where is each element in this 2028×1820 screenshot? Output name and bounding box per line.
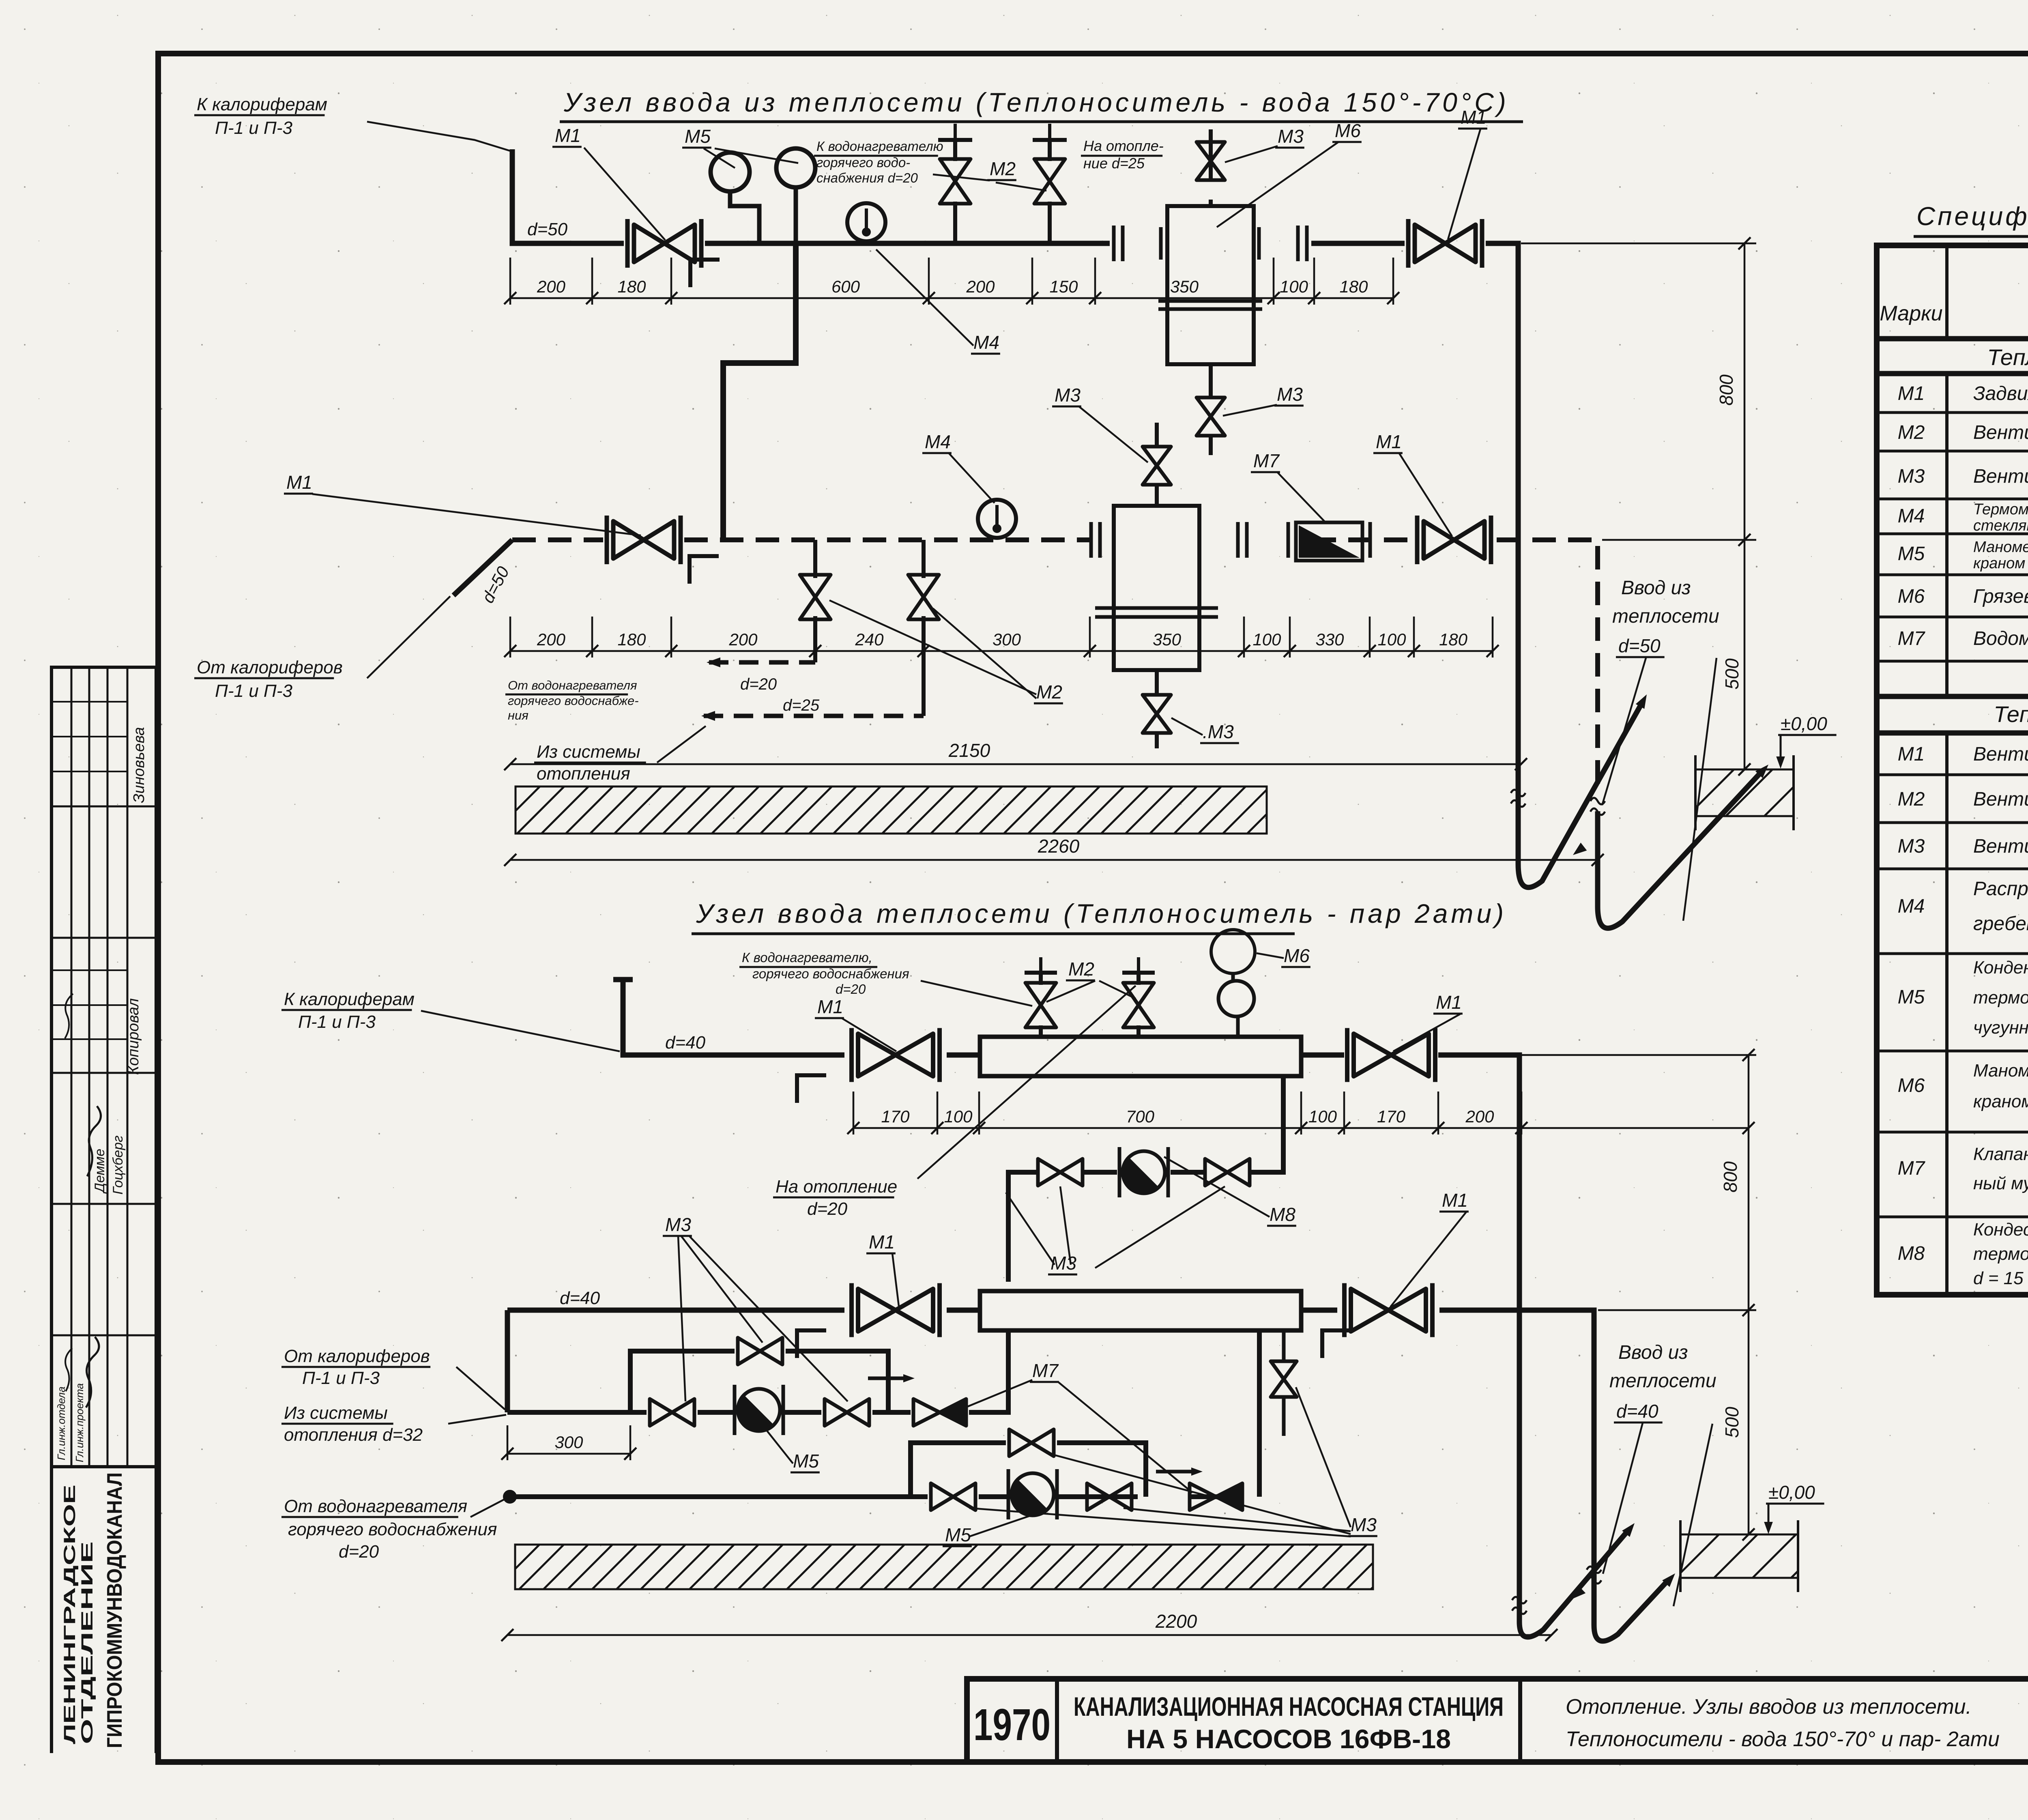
- svg-text:Отопление. Узлы вводов из: Отопление. Узлы вводов из теплосети.: [1566, 1695, 1972, 1719]
- leader to heating branch: [917, 986, 1136, 1179]
- valve M3 (vent on mud trap): [1197, 142, 1225, 180]
- branch valve M2 (d=20 from water heater): [813, 540, 817, 578]
- svg-text:теплосети: теплосети: [1612, 606, 1719, 627]
- leader M3->vent valve: [1225, 146, 1278, 162]
- svg-text:500: 500: [1721, 658, 1742, 690]
- branch to hot water heater (M2 valve): [953, 202, 957, 243]
- leader M2->valve1: [829, 600, 1036, 694]
- vertical dimension 800 / 500 (diagram 1): [1521, 243, 1756, 769]
- svg-text:180: 180: [617, 630, 646, 649]
- water meter unit vessel (350): [1114, 506, 1199, 670]
- svg-text:М1: М1: [555, 125, 581, 146]
- leader d40->loop: [1674, 1424, 1712, 1606]
- condensate bypass from manifold1: riser down: [1250, 1076, 1283, 1172]
- svg-text:КАНАЛИЗАЦИОННАЯ НАСОСНАЯ СТА: КАНАЛИЗАЦИОННАЯ НАСОСНАЯ СТАНЦИЯ: [1074, 1691, 1504, 1721]
- valve M3 (manifold drain): [1271, 1361, 1297, 1397]
- svg-text:Грязевик dy = 50: Грязевик dy = 50: [1973, 586, 2028, 607]
- pipe break mark: [1511, 790, 1525, 807]
- svg-text:М2: М2: [1898, 422, 1925, 443]
- hatched floor bar (diagram 2): [470, 1545, 1416, 1589]
- svg-text:М1: М1: [1898, 743, 1925, 765]
- svg-text:Теплоноситель - вода 150°-70°: Теплоноситель - вода 150°-70°С: [1987, 344, 2028, 370]
- valve M3 on bypass (left): [1038, 1159, 1083, 1186]
- flow arrow into loop d2: [1569, 1586, 1586, 1603]
- leader M7->check1: [965, 1380, 1032, 1407]
- valve M3 (drain of mud trap): [1197, 398, 1225, 436]
- svg-text:горячего водоснабже-: горячего водоснабже-: [508, 694, 639, 708]
- leader d40->riser: [1603, 1423, 1643, 1574]
- svg-text:термостатический: термостатический: [1973, 1244, 2028, 1264]
- leader M2 left: [933, 174, 990, 180]
- svg-text:d=20: d=20: [836, 982, 866, 997]
- svg-text:ный муфтовый d=25: ный муфтовый d=25: [1973, 1173, 2028, 1193]
- svg-text:На отопление: На отопление: [776, 1177, 897, 1197]
- svg-text:М3: М3: [1898, 836, 1925, 857]
- svg-text:М5: М5: [1898, 543, 1925, 565]
- svg-text:М2: М2: [1898, 789, 1925, 810]
- gauge M5 no.2 (manometer): [776, 148, 815, 187]
- leader M1: [1393, 1014, 1460, 1051]
- arrow d=25: [701, 711, 715, 721]
- svg-text:М3: М3: [1351, 1514, 1377, 1535]
- svg-text:От калориферов: От калориферов: [197, 658, 343, 677]
- svg-text:300: 300: [993, 630, 1021, 649]
- valve M3 loop1 b: [825, 1399, 869, 1426]
- svg-text:±0,00: ±0,00: [1768, 1482, 1815, 1503]
- expansion loop (supply riser, d2): [1519, 1532, 1626, 1637]
- mud trap M6 (gryazevik): [1167, 206, 1254, 364]
- leader to supply elbow d2: [421, 1011, 620, 1051]
- valve M3 loop2 a: [931, 1483, 975, 1510]
- svg-text:М4: М4: [925, 431, 951, 452]
- svg-text:краном Ру = 16 кг/см²: краном Ру = 16 кг/см²: [1973, 555, 2028, 572]
- wire: dashed branch d=20: [709, 660, 815, 665]
- svg-text:гребенка 89×3,5; l = 700: гребенка 89×3,5; l = 700: [1973, 913, 2028, 935]
- svg-text:Зиновьева: Зиновьева: [131, 727, 148, 803]
- svg-text:.М3: .М3: [1203, 721, 1234, 742]
- leader M7->meter: [1278, 473, 1326, 523]
- leader to supply elbow: [367, 122, 510, 151]
- leader M3a: [1006, 1193, 1055, 1265]
- leader M5: [765, 1428, 793, 1463]
- svg-text:100: 100: [1308, 1107, 1337, 1126]
- svg-text:ЛЕНИНГРАДСКОЕ: ЛЕНИНГРАДСКОЕ: [61, 1485, 79, 1744]
- svg-text:100: 100: [1252, 630, 1281, 649]
- svg-text:d=20: d=20: [807, 1199, 848, 1219]
- leader M3->loop2 bypass: [1046, 1453, 1351, 1534]
- svg-text:К водонагревателю,: К водонагревателю,: [742, 950, 872, 965]
- svg-text:Манометр с трехходовым: Манометр с трехходовым: [1973, 539, 2028, 556]
- leader M3->bypass1: [681, 1236, 763, 1343]
- svg-text:М6: М6: [1335, 120, 1361, 141]
- svg-text:горячего водоснабжения: горячего водоснабжения: [752, 966, 909, 981]
- svg-text:Термометр технический: Термометр технический: [1973, 501, 2028, 518]
- svg-text:термодинамический: термодинамический: [1973, 988, 2028, 1008]
- expansion loop (supply riser, d1): [1518, 705, 1641, 887]
- leader M3->loop1a: [678, 1236, 685, 1401]
- svg-text:350: 350: [1153, 630, 1182, 649]
- svg-text:800: 800: [1720, 1161, 1741, 1193]
- svg-text:М1: М1: [1436, 992, 1462, 1013]
- table grid: [1877, 245, 2028, 1295]
- svg-text:Распределительная: Распределительная: [1973, 878, 2028, 900]
- svg-text:М6: М6: [1284, 945, 1310, 966]
- svg-text:М3: М3: [1898, 466, 1925, 487]
- dimension 2200: [501, 1629, 1558, 1641]
- leader M3->drain2: [1171, 718, 1203, 735]
- svg-text:Марки: Марки: [1880, 302, 1942, 325]
- svg-text:d=50: d=50: [1618, 635, 1661, 656]
- svg-text:снабжения d=20: снабжения d=20: [816, 170, 918, 185]
- flow arrow loop2: [1755, 761, 1772, 778]
- vent valve M3 above mud trap: [1209, 200, 1213, 206]
- svg-text:теплосети: теплосети: [1609, 1370, 1716, 1392]
- svg-text:ГИПРОКОММУНВОДОКАНАЛ: ГИПРОКОММУНВОДОКАНАЛ: [103, 1472, 127, 1748]
- svg-text:М4: М4: [973, 332, 999, 353]
- leader M6->mud trap: [1217, 142, 1338, 227]
- svg-text:На отопле-: На отопле-: [1083, 138, 1164, 154]
- leader M1: [1390, 1212, 1466, 1307]
- valve M2 no.2 (branch d=25): [1034, 159, 1065, 204]
- leader note->valve: [921, 981, 1032, 1006]
- support mark d2: [797, 1075, 826, 1103]
- svg-text:700: 700: [1126, 1107, 1155, 1126]
- leader M5->gauge1: [704, 148, 735, 168]
- leader M6->gauge: [1257, 953, 1284, 958]
- thermometer M4 no.2: [978, 500, 1016, 538]
- wire: supply riser down to heat-network entry: [1516, 398, 1521, 827]
- svg-text:М2: М2: [990, 158, 1016, 179]
- valve M1 (dy=40 supply d2 left): [852, 1028, 940, 1082]
- leader M1->valve: [1399, 453, 1452, 536]
- pipe break mark d2: [1512, 1597, 1527, 1614]
- svg-text:Вентиль dy = 40: Вентиль dy = 40: [1973, 743, 2028, 765]
- svg-text:200: 200: [966, 277, 995, 296]
- leader M2->v2: [1099, 981, 1136, 999]
- support mark return d2: [797, 1330, 826, 1358]
- flow arrow loop1: [1636, 692, 1651, 709]
- svg-text:2200: 2200: [1155, 1611, 1197, 1632]
- svg-text:М6: М6: [1898, 586, 1925, 607]
- loop 2: from hot water heater: [505, 1330, 1259, 1501]
- svg-text:М7: М7: [1253, 450, 1280, 471]
- expansion loop (return riser, d2): [1594, 1582, 1666, 1641]
- svg-text:d = 15: d = 15: [1973, 1268, 2024, 1288]
- svg-text:От водонагревателя: От водонагревателя: [284, 1496, 467, 1516]
- leader M2->v1: [1046, 981, 1095, 1002]
- svg-text:К водонагревателю: К водонагревателю: [816, 139, 943, 154]
- leader M1->valve: [312, 494, 641, 535]
- svg-text:М1: М1: [869, 1231, 895, 1253]
- svg-text:ние d=25: ние d=25: [1083, 155, 1145, 172]
- svg-text:П-1 и П-3: П-1 и П-3: [298, 1012, 376, 1032]
- wire: return pipe d=50 dashed (diagram 1): [512, 540, 1598, 795]
- valve M1 (gate dy=50, supply d1): [627, 219, 701, 268]
- valve M3 (vessel drain): [1143, 695, 1171, 733]
- svg-text:Узел ввода теплосети (Тепло: Узел ввода теплосети (Теплоноситель - па…: [696, 898, 1507, 928]
- svg-text:М4: М4: [1898, 505, 1925, 527]
- branch valve M2 (d=25 from heating system): [922, 540, 926, 578]
- dimension chain, manifold 1: [847, 1092, 1527, 1135]
- wire: steam supply pipe d=40 (diagram 2): [613, 980, 1519, 1172]
- support mark return: [690, 556, 719, 584]
- dimension chain, supply line d1: [504, 258, 1399, 305]
- leader M7->check2: [1059, 1382, 1192, 1493]
- svg-text:К калориферам: К калориферам: [197, 95, 327, 114]
- leader M3->stub valve: [1296, 1387, 1351, 1527]
- leader M8->trap: [1164, 1157, 1270, 1217]
- flow arrow loop2: [1191, 1468, 1203, 1476]
- svg-text:М1: М1: [1461, 107, 1487, 128]
- svg-text:d=50: d=50: [527, 219, 568, 239]
- leader M1->valve: [1448, 129, 1480, 239]
- svg-text:Конденсатоотводчик: Конденсатоотводчик: [1973, 958, 2028, 978]
- pipe break mark d2: [1587, 1566, 1601, 1584]
- foundation block (diagram 2): [1637, 1534, 1835, 1578]
- valve M2 branch d=20: [800, 575, 831, 619]
- leader M2->valve2: [933, 608, 1036, 698]
- hatched floor bar (diagram 1): [468, 786, 1294, 834]
- valve M1 (dy=40 return d2 right): [1345, 1283, 1433, 1337]
- svg-text:М3: М3: [1277, 384, 1303, 405]
- svg-text:Манометр с трехходовым: Манометр с трехходовым: [1973, 1061, 2028, 1081]
- wire: steam return pipe d=40 (diagram 2): [507, 1310, 1594, 1582]
- svg-text:стеклянный ртутный: стеклянный ртутный: [1973, 517, 2028, 534]
- condensate trap M5 no.1: [735, 1385, 783, 1435]
- svg-text:Вентиль dy = 15: Вентиль dy = 15: [1973, 836, 2028, 857]
- leader from heaters label: [367, 596, 450, 678]
- support mark: [1322, 1330, 1351, 1358]
- svg-text:Копировал: Копировал: [125, 998, 142, 1075]
- svg-text:П-1 и П-3: П-1 и П-3: [302, 1368, 380, 1388]
- svg-text:чугунный d=15: чугунный d=15: [1973, 1018, 2028, 1038]
- svg-text:Демме: Демме: [92, 1149, 107, 1194]
- svg-text:От водонагревателя: От водонагревателя: [508, 678, 637, 692]
- svg-text:краном Ру =10 кг/см²: краном Ру =10 кг/см²: [1973, 1092, 2028, 1111]
- dimension 2150: [504, 758, 1527, 770]
- leader M5: [969, 1513, 1038, 1536]
- svg-text:Гл.инж.проекта: Гл.инж.проекта: [73, 1383, 86, 1462]
- svg-text:М7: М7: [1032, 1360, 1059, 1381]
- svg-text:М5: М5: [685, 126, 711, 147]
- svg-text:Ввод из: Ввод из: [1618, 1342, 1688, 1363]
- leader M3->loop1b: [690, 1236, 848, 1401]
- svg-text:200: 200: [537, 277, 566, 296]
- valve M2 on manifold: [1025, 983, 1056, 1027]
- svg-text:180: 180: [1439, 630, 1468, 649]
- svg-text:100: 100: [944, 1107, 973, 1126]
- svg-text:К калориферам: К калориферам: [284, 989, 415, 1009]
- valve M2 no.1 (branch d=20): [940, 159, 971, 204]
- svg-text:Из системы: Из системы: [284, 1403, 388, 1423]
- svg-text:100: 100: [1280, 277, 1308, 296]
- svg-text:d=25: d=25: [783, 696, 820, 714]
- foundation block (diagram 1): [1649, 769, 1811, 816]
- leader M3->loop2 b: [1124, 1508, 1351, 1531]
- svg-text:200: 200: [728, 630, 758, 649]
- svg-text:М5: М5: [1898, 986, 1925, 1008]
- vertical dimension 800/500 (diagram 2): [1442, 1054, 1756, 1056]
- valve M2 branch d=25: [908, 575, 939, 619]
- svg-text:М7: М7: [1898, 1158, 1926, 1179]
- valve M3 (vessel vent): [1143, 447, 1171, 485]
- svg-text:П-1 и П-3: П-1 и П-3: [215, 118, 292, 138]
- leader d50->riser2: [1683, 658, 1716, 921]
- svg-text:800: 800: [1716, 374, 1737, 406]
- svg-text:Клапан обратный подъем-: Клапан обратный подъем-: [1973, 1144, 2028, 1164]
- valve M3 on bypass (right): [1205, 1159, 1250, 1186]
- valve M1 (dy=40 return d2 left): [852, 1283, 940, 1337]
- leader M3->loop2 a: [969, 1508, 1351, 1536]
- valve M3 loop2 b: [1087, 1483, 1132, 1510]
- condensate trap M5 no.2: [1008, 1469, 1057, 1519]
- condensate trap M8: [1119, 1147, 1168, 1197]
- leader to d25 line: [657, 726, 706, 763]
- svg-text:ОТДЕЛЕНИЕ: ОТДЕЛЕНИЕ: [78, 1541, 96, 1744]
- svg-text:d=20: d=20: [339, 1542, 379, 1562]
- svg-text:М2: М2: [1036, 681, 1062, 703]
- support mark: [690, 260, 720, 287]
- leader: [456, 1367, 505, 1410]
- svg-text:М7: М7: [1898, 628, 1926, 649]
- svg-text:d=20: d=20: [740, 675, 777, 693]
- svg-text:2150: 2150: [948, 740, 990, 761]
- svg-text:М8: М8: [1898, 1243, 1925, 1264]
- svg-text:170: 170: [881, 1107, 910, 1126]
- flow arrow loop1: [903, 1374, 915, 1382]
- svg-text:2260: 2260: [1038, 836, 1080, 857]
- svg-text:М1: М1: [1442, 1190, 1468, 1211]
- svg-text:170: 170: [1377, 1107, 1406, 1126]
- svg-text:М3: М3: [1278, 126, 1304, 147]
- wire: supply pipe d=50 (diagram 1): [512, 149, 1518, 398]
- svg-text:Узел ввода из теплосети (Т: Узел ввода из теплосети (Теплоноситель -…: [563, 87, 1509, 117]
- signature scribbles: [87, 1106, 101, 1176]
- svg-text:Из системы: Из системы: [537, 742, 640, 762]
- svg-text:М8: М8: [1270, 1204, 1295, 1225]
- svg-text:отопления: отопления: [537, 764, 630, 784]
- svg-text:180: 180: [1339, 277, 1368, 296]
- leader: [448, 1415, 506, 1424]
- svg-text:d=40: d=40: [1616, 1401, 1658, 1422]
- valve M1 (gate dy=50, return d1): [607, 516, 681, 564]
- valve M1 (gate dy=50, supply d1 right): [1408, 219, 1482, 268]
- svg-text:180: 180: [617, 277, 646, 296]
- svg-text:М1: М1: [1376, 431, 1402, 452]
- wire: dashed branch d=25: [704, 714, 924, 718]
- dimension 300: [501, 1425, 636, 1460]
- svg-text:Теплоносители - вода 150°-70°: Теплоносители - вода 150°-70° и пар- 2ат…: [1566, 1728, 2000, 1751]
- gauge M6 with siphon: [1211, 930, 1255, 973]
- water meter M7: [1296, 522, 1362, 561]
- leader M3->drain valve: [1223, 405, 1277, 416]
- svg-text:Вентиль dy =25: Вентиль dy =25: [1973, 422, 2028, 443]
- leader M1: [892, 1253, 899, 1306]
- wire: jumper pipe between supply and return: [723, 243, 796, 537]
- flanged inlet nipple: [1114, 226, 1307, 261]
- svg-text:П-1 и П-3: П-1 и П-3: [215, 681, 292, 701]
- valve M1 (dy=40 supply d2 right): [1347, 1028, 1435, 1082]
- leader d50->riser: [1602, 658, 1646, 805]
- svg-text:300: 300: [554, 1433, 583, 1452]
- distribution manifold no.2 (M4 grebenka): [980, 1291, 1301, 1330]
- svg-text:Гоцхберг: Гоцхберг: [110, 1135, 126, 1195]
- svg-text:отопления d=32: отопления d=32: [284, 1425, 423, 1445]
- leader M4->thermometer: [876, 249, 973, 346]
- svg-text:НА 5 НАСОСОВ 16ФВ-18: НА 5 НАСОСОВ 16ФВ-18: [1126, 1724, 1451, 1754]
- svg-text:ния: ния: [508, 708, 528, 722]
- leader M1->valve: [584, 148, 665, 240]
- valve M3 loop2 bypass: [1009, 1429, 1054, 1456]
- drain valve M3 below vessel: [1155, 670, 1159, 695]
- flow arrow into loop: [1570, 842, 1587, 859]
- svg-text:горячего водоснабжения: горячего водоснабжения: [288, 1519, 497, 1539]
- vent valve M3 on manifold 2: [1282, 1330, 1286, 1361]
- svg-text:500: 500: [1721, 1407, 1742, 1438]
- leader M3c: [1095, 1186, 1225, 1268]
- svg-text:d=40: d=40: [665, 1033, 706, 1053]
- distribution manifold no.1 (M4 grebenka): [980, 1037, 1301, 1076]
- svg-text:М3: М3: [665, 1214, 691, 1235]
- svg-text:240: 240: [855, 630, 884, 649]
- svg-text:100: 100: [1377, 630, 1406, 649]
- leader M1: [842, 1018, 896, 1051]
- valve M1 (gate dy=50, return d1 right): [1417, 516, 1491, 564]
- leader M5->gauge2: [715, 148, 798, 163]
- leader: [470, 1498, 508, 1517]
- svg-text:±0,00: ±0,00: [1781, 713, 1827, 734]
- svg-text:d=40: d=40: [560, 1288, 600, 1308]
- vent valve M3 above vessel: [1155, 485, 1159, 506]
- check valve M7 no.2: [1190, 1483, 1242, 1510]
- svg-text:330: 330: [1315, 630, 1344, 649]
- arrow d=20: [707, 658, 720, 667]
- dimension chain, return line d1: [504, 617, 1499, 658]
- svg-text:М1: М1: [817, 996, 843, 1017]
- valve M3 loop1 bypass: [738, 1338, 782, 1364]
- valve M2 on manifold: [1123, 983, 1154, 1027]
- svg-text:М2: М2: [1068, 958, 1094, 980]
- svg-text:От калориферов: От калориферов: [284, 1346, 430, 1366]
- svg-text:М6: М6: [1898, 1075, 1925, 1096]
- svg-text:Гл.инж.отдела: Гл.инж.отдела: [55, 1386, 67, 1460]
- svg-text:200: 200: [1465, 1107, 1494, 1126]
- dimension 2260: [504, 854, 1604, 866]
- svg-text:200: 200: [537, 630, 566, 649]
- flow arrow: [1622, 1520, 1638, 1537]
- leader M4->thermometer2: [949, 453, 995, 503]
- leader M2 right: [996, 183, 1046, 191]
- loop 1: from heating system: [507, 1330, 1008, 1412]
- svg-text:М1: М1: [286, 472, 312, 493]
- svg-text:600: 600: [831, 277, 860, 296]
- expansion loop (return riser, d1): [1598, 774, 1759, 928]
- wire: return diagonal to heaters: [453, 540, 512, 595]
- svg-text:М4: М4: [1898, 896, 1925, 917]
- svg-text:1970: 1970: [973, 1700, 1051, 1750]
- svg-text:М1: М1: [1898, 383, 1925, 404]
- leader M3b: [1060, 1186, 1071, 1265]
- M2 branch valves on manifold 1: [1039, 1025, 1043, 1037]
- gauge M5 no.1 (manometer): [711, 153, 750, 191]
- svg-text:Ввод из: Ввод из: [1621, 577, 1691, 599]
- svg-text:350: 350: [1170, 277, 1199, 296]
- branch to heating (M2 valve): [1048, 202, 1052, 243]
- title block: [967, 1679, 2028, 1762]
- svg-text:150: 150: [1049, 277, 1078, 296]
- svg-text:Вентиль dy = 25: Вентиль dy = 25: [1973, 789, 2028, 810]
- svg-text:Кондесатоотводчик: Кондесатоотводчик: [1973, 1220, 2028, 1240]
